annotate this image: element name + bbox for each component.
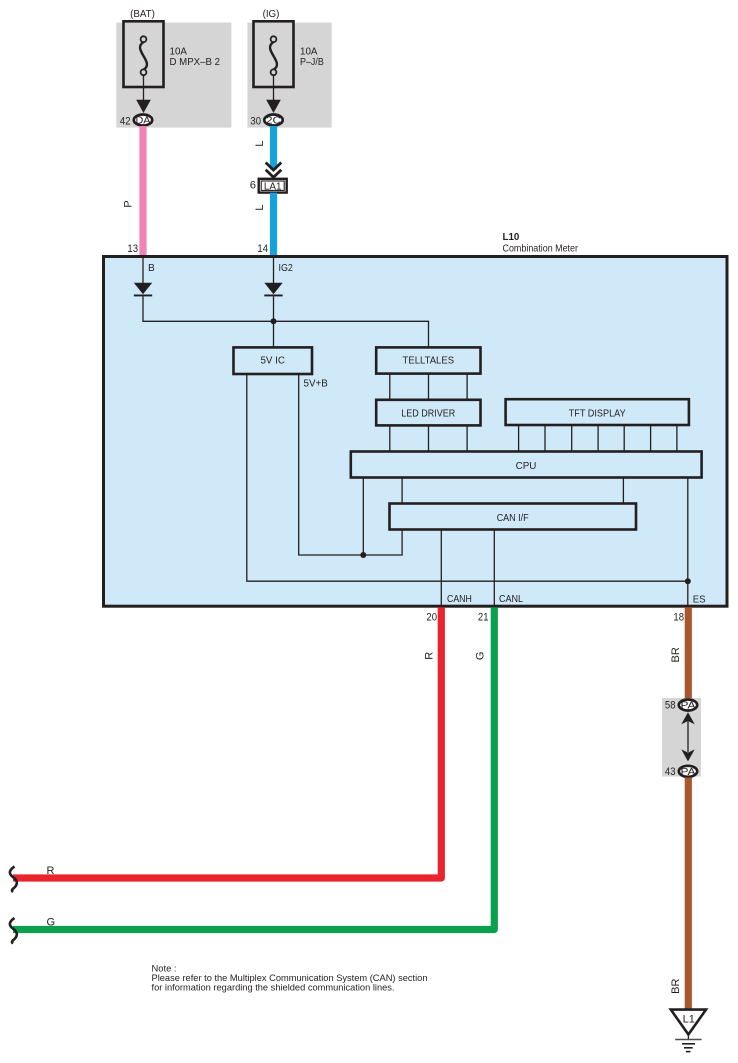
svg-text:LED DRIVER: LED DRIVER xyxy=(401,408,455,419)
pin name B xyxy=(148,263,155,274)
wire L (blue) from LA1 to pin 14 xyxy=(270,193,277,257)
svg-text:ES: ES xyxy=(693,594,706,605)
component L10 name Combination Meter xyxy=(503,244,579,255)
svg-text:5V IC: 5V IC xyxy=(260,356,285,367)
label (IG) xyxy=(263,9,280,20)
connector LA1 xyxy=(259,179,287,193)
wire R (red) CANH xyxy=(13,607,441,878)
svg-text:TELLTALES: TELLTALES xyxy=(403,356,455,367)
svg-text:LA1: LA1 xyxy=(264,181,282,192)
block CAN I/F xyxy=(390,504,637,530)
block LED DRIVER xyxy=(376,400,480,426)
junction-block J/B shading (IG fuse) xyxy=(247,23,331,128)
ground point L1 xyxy=(671,1010,706,1035)
value label 10A / D MPX-B 2 xyxy=(170,47,221,68)
wire 5V IC left output to ES rail xyxy=(247,374,688,581)
pin 58 label xyxy=(665,700,676,712)
svg-text:R: R xyxy=(47,865,55,877)
pin 42 label xyxy=(120,115,131,127)
wire BR (brown) lower xyxy=(685,778,692,1010)
wire BR (brown) pin 18 upper xyxy=(685,607,692,700)
wire TFT DISPLAY to CPU (x7) xyxy=(519,425,677,452)
wire CPU to CAN I/F (right) xyxy=(622,478,624,504)
svg-text:(BAT): (BAT) xyxy=(130,9,155,20)
svg-text:18: 18 xyxy=(673,612,684,624)
block CPU xyxy=(351,452,702,478)
inter-connector arrows PA xyxy=(681,712,694,761)
wire color label R (horizontal) xyxy=(47,865,55,877)
svg-text:L: L xyxy=(254,140,266,146)
pin 13 internal line (B) xyxy=(142,258,144,283)
svg-text:BR: BR xyxy=(670,979,682,994)
svg-text:58: 58 xyxy=(665,700,676,712)
connector 2C xyxy=(264,115,282,127)
svg-text:6: 6 xyxy=(250,180,256,192)
svg-text:P–J/B: P–J/B xyxy=(300,57,324,68)
connector PA (58) xyxy=(679,700,697,712)
value label 10A / P-J/B xyxy=(300,47,324,68)
fuse F2 10A P-J/B xyxy=(254,21,294,87)
svg-text:L: L xyxy=(254,204,266,210)
pin 30 label xyxy=(250,115,261,127)
svg-text:42: 42 xyxy=(120,115,131,127)
wire L (blue) from 2C to shield arrow xyxy=(270,126,277,170)
pin 14 internal line (IG2) xyxy=(273,258,275,283)
pin name ES xyxy=(693,594,706,605)
wire G (green) CANL xyxy=(13,607,494,929)
svg-text:5V+B: 5V+B xyxy=(304,379,329,390)
wire color label L (upper) xyxy=(254,140,266,146)
svg-text:Combination Meter: Combination Meter xyxy=(503,244,579,255)
wire color label BR (upper) xyxy=(670,647,682,662)
svg-text:2C: 2C xyxy=(266,116,281,127)
wire ES from CPU to pin 18 xyxy=(687,478,689,606)
connector DA xyxy=(134,115,152,127)
svg-text:PA: PA xyxy=(681,767,696,778)
wire junction to TELLTALES input xyxy=(274,321,429,347)
svg-text:CANH: CANH xyxy=(447,594,472,605)
wire color label P xyxy=(123,200,135,207)
wire fuse F1 output arrow xyxy=(136,76,151,114)
junction node diodes common xyxy=(271,318,277,324)
svg-text:CANL: CANL xyxy=(499,594,523,605)
diode D1 (B input) xyxy=(134,283,152,297)
svg-text:BR: BR xyxy=(670,647,682,662)
wire color label R (vertical) xyxy=(424,652,436,660)
shield double chevron xyxy=(266,163,282,178)
diode D2 (IG2 input) xyxy=(264,283,282,297)
wire diode D2 to 5V IC input xyxy=(273,296,275,347)
break squiggle red wire xyxy=(10,867,17,893)
wire color label G (horizontal) xyxy=(47,916,56,928)
svg-text:DA: DA xyxy=(136,116,151,127)
svg-text:R: R xyxy=(424,652,436,660)
svg-text:10A: 10A xyxy=(300,47,318,58)
note text xyxy=(152,963,428,993)
pin name CANL xyxy=(499,594,523,605)
break squiggle green wire xyxy=(10,918,17,944)
pin 20 label xyxy=(426,612,437,624)
svg-text:B: B xyxy=(148,263,155,274)
wire CANH internal xyxy=(440,530,442,606)
ground symbol xyxy=(675,1035,701,1052)
wire CANL internal xyxy=(493,530,495,606)
pin 43 label xyxy=(665,766,676,778)
wire TELLTALES to LED DRIVER (x3) xyxy=(390,374,467,400)
svg-text:D MPX–B 2: D MPX–B 2 xyxy=(170,57,221,68)
svg-text:14: 14 xyxy=(257,243,268,255)
pin 14 label xyxy=(257,243,268,255)
junction node 5V+B rail xyxy=(360,552,366,558)
pin name CANH xyxy=(447,594,472,605)
svg-text:20: 20 xyxy=(426,612,437,624)
svg-text:for information regarding the: for information regarding the shielded c… xyxy=(152,981,395,992)
label (BAT) xyxy=(130,9,155,20)
svg-text:43: 43 xyxy=(665,766,676,778)
svg-text:P: P xyxy=(123,200,135,207)
svg-text:G: G xyxy=(47,916,56,928)
block TELLTALES xyxy=(376,347,480,373)
combination meter body L10 xyxy=(104,257,728,607)
svg-text:(IG): (IG) xyxy=(263,9,280,20)
net label 5V+B xyxy=(304,379,329,390)
svg-text:TFT DISPLAY: TFT DISPLAY xyxy=(569,408,626,419)
junction node ES rail xyxy=(685,578,691,584)
fuse F1 10A D MPX-B 2 xyxy=(124,21,164,87)
svg-text:IG2: IG2 xyxy=(279,263,294,274)
wire LED DRIVER to CPU (x3) xyxy=(390,425,467,451)
svg-text:CPU: CPU xyxy=(516,461,537,472)
pin 21 label xyxy=(478,612,489,624)
svg-text:PA: PA xyxy=(681,701,696,712)
svg-text:21: 21 xyxy=(478,612,489,624)
svg-text:10A: 10A xyxy=(170,47,188,58)
connector PA (43) xyxy=(679,766,697,778)
pin 18 label xyxy=(673,612,684,624)
svg-text:G: G xyxy=(475,652,487,661)
wire P (pink) from DA to pin 13 xyxy=(139,126,146,257)
svg-text:L10: L10 xyxy=(503,232,520,243)
block 5V IC xyxy=(234,347,313,374)
svg-text:30: 30 xyxy=(250,115,261,127)
svg-text:CAN I/F: CAN I/F xyxy=(497,513,529,524)
pin 13 label xyxy=(127,243,138,255)
wire CPU to CAN I/F (left) xyxy=(401,478,403,504)
svg-text:L1: L1 xyxy=(683,1014,695,1026)
pin 6 label xyxy=(250,180,256,192)
wire color label BR (lower) xyxy=(670,979,682,994)
wire color label L (lower) xyxy=(254,204,266,210)
component L10 designator xyxy=(503,232,520,243)
wire color label G (vertical) xyxy=(475,652,487,661)
svg-text:13: 13 xyxy=(127,243,138,255)
junction-block J/B shading (BAT fuse) xyxy=(116,23,231,128)
connector block PA shading xyxy=(662,698,701,777)
wire CPU bottom to 5V+B rail xyxy=(362,478,364,556)
pin name IG2 xyxy=(279,263,294,274)
block TFT DISPLAY xyxy=(506,399,689,425)
wire diode D1 to junction xyxy=(143,296,274,321)
wire 5V IC right output 5V+B xyxy=(299,374,402,555)
wire fuse F2 output arrow xyxy=(266,76,281,114)
